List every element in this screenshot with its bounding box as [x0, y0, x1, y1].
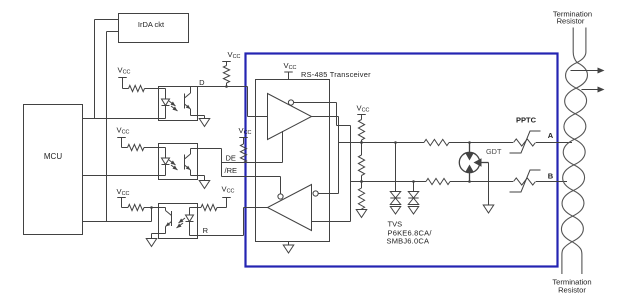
label RS-485 Transceiver	[301, 70, 371, 79]
wire R5 to opto U4	[144, 206, 159, 209]
resistor R3	[128, 144, 145, 150]
wire opto U4 to R6	[198, 207, 202, 209]
power VCC8 bias	[357, 104, 370, 120]
node R label	[203, 226, 209, 235]
wire RE to receiver enable	[280, 177, 282, 194]
power VCC5	[117, 187, 130, 208]
node A label	[548, 131, 554, 140]
TVS diode D2	[408, 192, 418, 215]
wire R1 to opto U2	[145, 88, 159, 90]
wire MCU to opto U3 LED (bus2)	[83, 175, 159, 177]
svg-text:/RE: /RE	[225, 166, 238, 175]
wire GDT to ground	[488, 163, 490, 206]
resistor R2 pullup D	[223, 66, 229, 84]
node A-TVS junction	[394, 141, 397, 144]
wire A rail	[339, 142, 573, 144]
ground opto U4	[146, 234, 158, 247]
ground opto U3	[198, 176, 210, 189]
svg-text:PPTC: PPTC	[516, 116, 537, 125]
power VCC7 transceiver	[284, 61, 297, 80]
RS-485 transceiver boundary box	[246, 54, 558, 267]
PPTC F1 on A	[510, 131, 541, 153]
ground GDT	[483, 205, 494, 213]
node DE label	[226, 154, 236, 163]
svg-text:D: D	[199, 78, 205, 87]
svg-text:Resistor: Resistor	[557, 17, 585, 26]
power VCC4 pullup DE	[239, 126, 252, 144]
wire A to TVS D1	[395, 143, 397, 192]
wire VCC1 to R1	[123, 88, 129, 90]
svg-text:B: B	[548, 172, 554, 181]
power VCC1	[118, 66, 131, 89]
label termination resistor top	[553, 10, 592, 26]
optocoupler U2	[159, 87, 198, 121]
node D label	[199, 78, 205, 87]
node B-R8 junction	[360, 180, 363, 183]
label termination resistor bottom	[552, 278, 591, 295]
node B-TVS junction	[412, 180, 415, 183]
ground bias	[356, 210, 367, 218]
driver buffer U1A	[268, 94, 312, 140]
wire B to TVS D2	[413, 182, 415, 192]
power VCC2 pullup D	[222, 50, 240, 66]
svg-text:MCU: MCU	[44, 152, 62, 161]
wire driver inverted output to B	[294, 103, 351, 222]
node B label	[548, 172, 554, 181]
wire DE	[222, 162, 283, 164]
wire RE	[222, 176, 281, 178]
svg-text:IrDA ckt: IrDA ckt	[138, 20, 165, 29]
resistor R4 pullup DE	[240, 144, 246, 163]
resistor R7 bias high	[358, 120, 364, 143]
optocoupler U3	[159, 144, 198, 180]
ground transceiver	[283, 242, 294, 254]
wire R6 to VCC6	[217, 207, 227, 209]
wire MCU to opto U2 LED (bus1)	[83, 118, 159, 120]
ground opto U2	[198, 116, 210, 127]
resistor R11 series B	[426, 178, 450, 184]
resistor R6	[201, 204, 217, 210]
wire IrDA to D bus	[95, 20, 119, 119]
wire VCC3 to R3	[122, 147, 128, 149]
transceiver IC box	[256, 80, 330, 242]
wire driver output to A	[312, 117, 339, 194]
wire MCU to opto U4 output (bus3)	[83, 208, 152, 222]
TVS diode D1	[390, 192, 400, 215]
resistor R8 bias mid	[358, 143, 364, 182]
wire R2 to D	[225, 83, 228, 88]
svg-text:GDT: GDT	[486, 147, 502, 156]
IrDA ckt block	[119, 14, 189, 43]
receiver buffer U1B	[268, 185, 319, 231]
PPTC F2 on B	[510, 170, 541, 192]
arrow signal 2	[582, 87, 605, 93]
svg-text:RS-485 Transceiver: RS-485 Transceiver	[301, 70, 371, 79]
MCU block	[24, 105, 83, 235]
svg-text:DE: DE	[226, 154, 236, 163]
svg-text:TVS: TVS	[388, 220, 403, 229]
node A-GDT junction	[468, 141, 471, 144]
wire DE to driver enable	[282, 131, 284, 163]
optocoupler U4	[159, 204, 198, 239]
node A-R7 junction	[360, 141, 363, 144]
wire IrDA to R bus	[107, 32, 119, 222]
wire R3 to opto U3	[144, 147, 159, 149]
arrow signal 1	[571, 68, 605, 74]
label PPTC	[516, 116, 537, 125]
wire opto U3 to DE-RE	[198, 149, 222, 177]
wire receiver input from B	[312, 221, 351, 223]
svg-text:Resistor: Resistor	[558, 286, 586, 295]
power VCC6	[222, 184, 235, 207]
resistor R1	[129, 85, 145, 91]
node /RE label	[225, 166, 238, 175]
GDT gas discharge tube	[459, 143, 488, 182]
wire VCC5 to R5	[122, 207, 129, 209]
resistor R9 bias low	[358, 182, 364, 210]
wire B rail	[351, 181, 568, 183]
svg-text:SMBJ6.0CA: SMBJ6.0CA	[387, 237, 430, 246]
svg-text:R: R	[203, 226, 209, 235]
label GDT	[486, 147, 502, 156]
wire R to receiver output	[198, 208, 268, 236]
twisted pair cable	[561, 28, 587, 275]
resistor R5	[128, 204, 144, 210]
label TVS	[387, 220, 433, 246]
node B-GDT junction	[468, 180, 471, 183]
wire D to driver input	[198, 87, 268, 117]
resistor R10 series A	[424, 139, 449, 145]
svg-text:A: A	[548, 131, 554, 140]
power VCC3	[117, 126, 130, 148]
